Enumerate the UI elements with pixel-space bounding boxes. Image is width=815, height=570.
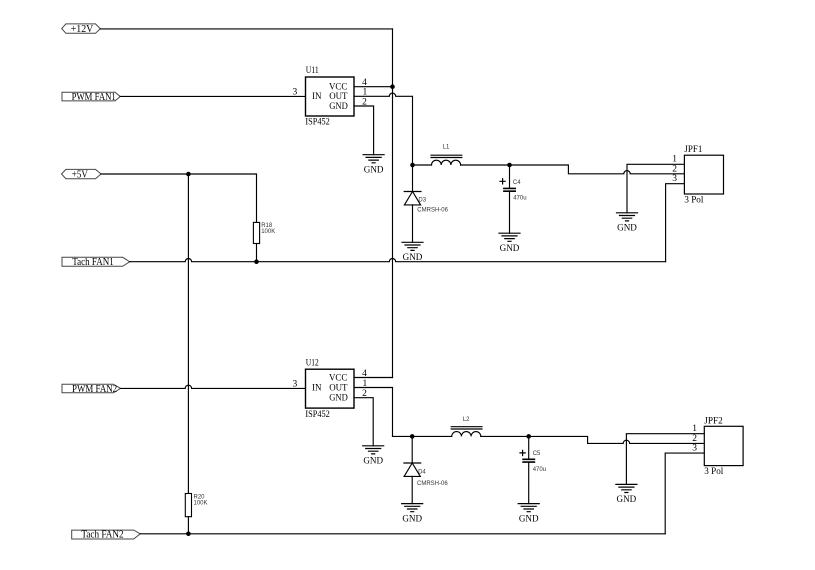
- svg-text:470u: 470u: [533, 467, 546, 473]
- svg-text:IN: IN: [312, 383, 322, 393]
- svg-text:L1: L1: [443, 144, 450, 150]
- node R20/Tach FAN2 junction: [186, 532, 191, 537]
- connector JPF1: [672, 145, 723, 205]
- inductor L2: [451, 417, 482, 436]
- wire node to L1: [413, 164, 432, 166]
- ground JPF1: [617, 213, 638, 234]
- net label PWM FAN1: [62, 91, 120, 103]
- wire +12V main vertical to U12 VCC: [392, 29, 394, 378]
- ground U11: [363, 155, 384, 176]
- power port +12V: [62, 23, 101, 35]
- svg-text:R20: R20: [194, 494, 206, 500]
- svg-text:VCC: VCC: [329, 373, 347, 383]
- ground JPF2: [616, 484, 637, 505]
- svg-text:ISP452: ISP452: [305, 118, 330, 128]
- capacitor C4 470u: [500, 165, 527, 233]
- svg-text:GND: GND: [363, 457, 383, 467]
- ground C4: [499, 233, 520, 254]
- node SW1 junction (OUT/L1/D3): [410, 163, 415, 168]
- svg-text:CMRSH-06: CMRSH-06: [417, 481, 448, 487]
- ground D3: [402, 242, 423, 263]
- svg-text:VCC: VCC: [329, 82, 347, 92]
- svg-text:100K: 100K: [194, 500, 208, 506]
- wire PWM FAN1 to U11 pin 3: [120, 95, 305, 97]
- wire U11 pin 1 OUT with hop over +12V vertical: [354, 93, 413, 165]
- wire Tach FAN2: [140, 533, 665, 535]
- wire U12 pin 2 to ground: [354, 398, 373, 446]
- wire U12 pin 1 OUT down to node: [354, 388, 393, 437]
- svg-text:+5V: +5V: [72, 169, 88, 181]
- svg-text:+12V: +12V: [71, 23, 94, 35]
- op-amp U12 (driver IC ISP452): [292, 359, 367, 420]
- wire U11 pin 4 VCC: [354, 86, 393, 88]
- svg-text:3 Pol: 3 Pol: [684, 195, 703, 205]
- resistor R18 100K: [253, 222, 275, 243]
- svg-text:ISP452: ISP452: [305, 410, 330, 420]
- svg-text:OUT: OUT: [329, 383, 347, 393]
- svg-text:C4: C4: [513, 180, 521, 186]
- svg-text:OUT: OUT: [329, 92, 347, 102]
- node SW2 junction (OUT/L2/D4): [410, 434, 415, 439]
- svg-text:JPF1: JPF1: [684, 145, 702, 155]
- node VCC U11 junction: [390, 84, 395, 89]
- node R18/Tach FAN1 junction: [254, 259, 259, 264]
- svg-text:C5: C5: [533, 451, 541, 457]
- node C4 junction: [507, 163, 512, 168]
- ground D4: [402, 504, 423, 525]
- svg-text:CMRSH-06: CMRSH-06: [417, 208, 448, 214]
- svg-text:D3: D3: [418, 197, 426, 203]
- wire L1 to step: [461, 165, 685, 174]
- connector JPF2: [692, 417, 743, 477]
- svg-text:2: 2: [692, 434, 697, 444]
- svg-text:Tach FAN2: Tach FAN2: [81, 529, 123, 541]
- svg-text:GND: GND: [364, 165, 384, 175]
- svg-text:IN: IN: [312, 92, 322, 102]
- node +5V rail junction: [186, 172, 191, 177]
- net label PWM FAN2: [62, 383, 121, 395]
- svg-text:GND: GND: [402, 514, 422, 524]
- diode D4 CMRSH-06: [404, 436, 448, 503]
- node C5 junction: [526, 434, 531, 439]
- svg-text:3: 3: [672, 174, 677, 184]
- wire JPF1 pin 1 to ground: [627, 164, 684, 213]
- wire R18 to Tach FAN1: [256, 244, 258, 262]
- wire +5V horizontal: [101, 174, 257, 222]
- wire node2 horizontal: [393, 435, 452, 437]
- wire Tach FAN1 with hops: [130, 259, 666, 262]
- inductor L1: [431, 144, 462, 165]
- svg-text:GND: GND: [617, 224, 637, 234]
- svg-text:1: 1: [692, 424, 697, 434]
- svg-text:100K: 100K: [261, 229, 275, 235]
- wire U12 pin 4 VCC: [354, 377, 393, 379]
- ground U12: [363, 446, 384, 467]
- wire JPF2 pin 1 to ground: [626, 434, 704, 485]
- resistor R20 100K: [185, 494, 207, 517]
- svg-text:GND: GND: [500, 244, 520, 254]
- wire PWM FAN2 to U12 pin 3 with hop: [121, 385, 306, 388]
- svg-text:R18: R18: [261, 223, 273, 229]
- wire +5V rail vertical to R20: [187, 174, 189, 494]
- svg-text:PWM FAN2: PWM FAN2: [72, 383, 117, 395]
- op-amp U11 (driver IC ISP452): [292, 66, 367, 128]
- svg-text:GND: GND: [329, 102, 348, 112]
- svg-text:3 Pol: 3 Pol: [704, 467, 723, 477]
- wire JPF2 pin 3 to Tach FAN2: [665, 453, 704, 534]
- svg-text:U11: U11: [306, 66, 319, 76]
- svg-text:D4: D4: [418, 469, 426, 475]
- svg-text:3: 3: [692, 444, 697, 454]
- svg-text:L2: L2: [463, 417, 470, 423]
- wire R20 to Tach FAN2: [187, 517, 189, 534]
- svg-text:470u: 470u: [513, 195, 526, 201]
- net label Tach FAN2: [72, 529, 141, 541]
- svg-text:GND: GND: [617, 495, 637, 505]
- diode D3 CMRSH-06: [404, 165, 448, 242]
- svg-text:PWM FAN1: PWM FAN1: [72, 91, 116, 103]
- net label Tach FAN1: [62, 256, 130, 268]
- svg-text:GND: GND: [329, 394, 348, 404]
- ground C5: [518, 504, 539, 525]
- svg-text:3: 3: [292, 88, 297, 98]
- wire L2 to step and JPF2 pin 2 with hop: [481, 436, 705, 443]
- wire U11 pin 2 to ground: [354, 106, 374, 155]
- svg-text:2: 2: [672, 164, 677, 174]
- power port +5V: [62, 169, 102, 181]
- svg-text:U12: U12: [306, 359, 319, 369]
- svg-text:1: 1: [672, 155, 677, 165]
- svg-text:GND: GND: [519, 514, 539, 524]
- svg-text:JPF2: JPF2: [704, 417, 723, 427]
- svg-text:3: 3: [292, 380, 297, 390]
- wire +12V horizontal: [100, 28, 392, 30]
- wire JPF1 pin 3 to Tach FAN1: [666, 184, 685, 262]
- svg-text:Tach FAN1: Tach FAN1: [72, 256, 114, 268]
- capacitor C5 470u: [520, 436, 546, 503]
